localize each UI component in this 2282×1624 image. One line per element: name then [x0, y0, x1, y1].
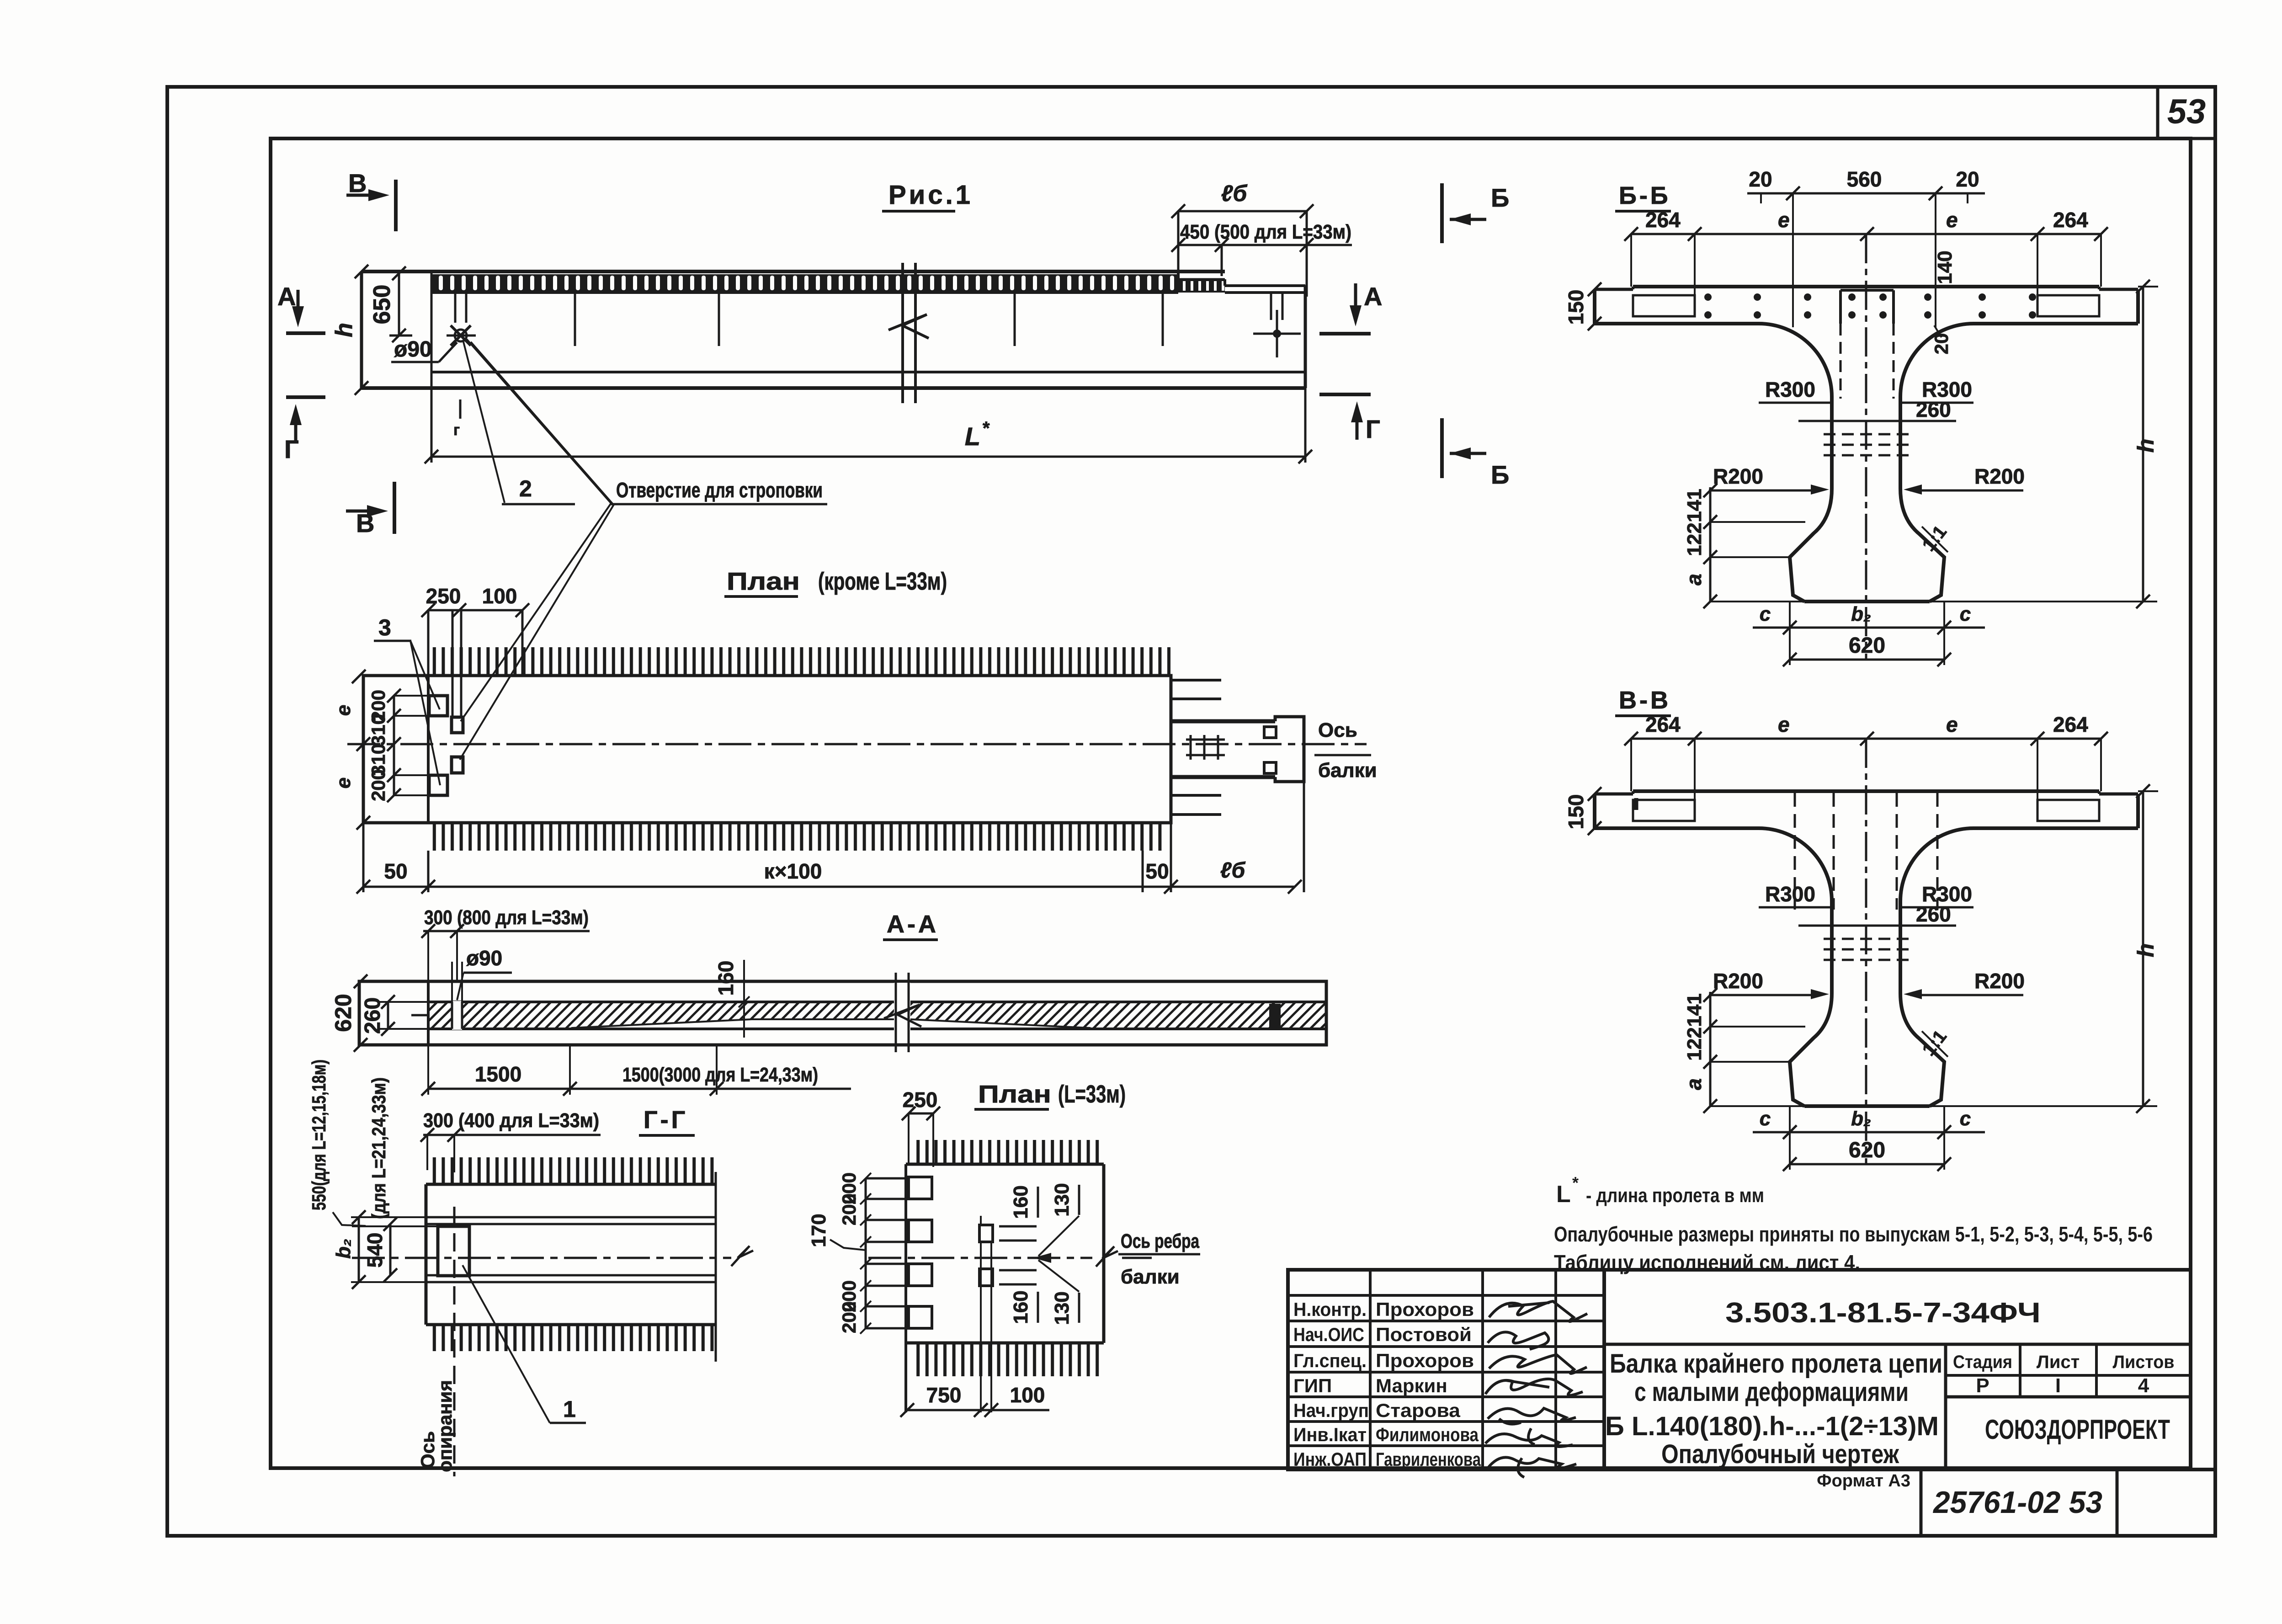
svg-text:4: 4 [2138, 1374, 2149, 1397]
svg-text:Прохоров: Прохоров [1376, 1350, 1474, 1371]
svg-text:Отверстие для строповки: Отверстие для строповки [616, 478, 823, 502]
svg-text:Формат А3: Формат А3 [1817, 1471, 1910, 1491]
svg-text:Р: Р [1976, 1374, 1989, 1397]
svg-text:b₂: b₂ [1851, 1108, 1871, 1130]
svg-text:53: 53 [2167, 92, 2206, 131]
svg-text:h: h [2133, 439, 2159, 453]
svg-text:560: 560 [1847, 167, 1882, 191]
svg-text:СОЮЗДОРПРОЕКТ: СОЮЗДОРПРОЕКТ [1985, 1414, 2170, 1445]
svg-text:20: 20 [1749, 167, 1772, 191]
svg-text:b₂: b₂ [1851, 603, 1871, 625]
svg-text:Н.контр.: Н.контр. [1293, 1299, 1367, 1320]
svg-text:Гавриленкова: Гавриленкова [1376, 1448, 1481, 1470]
svg-text:3: 3 [378, 615, 391, 640]
svg-text:Гл.спец.: Гл.спец. [1293, 1350, 1367, 1371]
svg-text:R200: R200 [1713, 464, 1763, 488]
svg-text:Опалубочный чертеж: Опалубочный чертеж [1661, 1439, 1899, 1469]
svg-text:50: 50 [384, 859, 407, 883]
svg-text:122: 122 [1683, 522, 1706, 556]
svg-text:е: е [332, 705, 355, 716]
svg-text:1: 1 [563, 1396, 576, 1422]
svg-text:L: L [965, 422, 980, 451]
svg-text:балки: балки [1121, 1266, 1180, 1288]
svg-text:R200: R200 [1974, 464, 2025, 488]
svg-text:260: 260 [1916, 902, 1951, 926]
svg-text:R200: R200 [1713, 969, 1763, 993]
svg-text:Нач.груп: Нач.груп [1293, 1400, 1369, 1421]
svg-text:160: 160 [1010, 1185, 1032, 1219]
svg-text:2: 2 [519, 476, 532, 501]
svg-text:(L=33м): (L=33м) [1058, 1081, 1126, 1108]
svg-text:Б-Б: Б-Б [1619, 182, 1671, 209]
svg-text:h: h [2133, 943, 2159, 958]
svg-text:160: 160 [1010, 1290, 1032, 1324]
svg-text:750: 750 [926, 1383, 962, 1407]
svg-text:Лист: Лист [2037, 1352, 2080, 1372]
svg-text:h: h [331, 323, 357, 337]
svg-text:450 (500 для L=33м): 450 (500 для L=33м) [1180, 221, 1351, 243]
svg-text:130: 130 [1051, 1183, 1073, 1216]
svg-text:ø90: ø90 [394, 337, 432, 362]
svg-text:200: 200 [838, 1301, 860, 1333]
svg-text:250: 250 [903, 1088, 938, 1112]
svg-text:План: План [978, 1081, 1051, 1108]
svg-text:250: 250 [426, 584, 461, 608]
svg-text:Б: Б [1491, 460, 1509, 489]
svg-text:Старова: Старова [1376, 1400, 1461, 1421]
svg-text:150: 150 [1564, 794, 1588, 830]
svg-text:ø90: ø90 [466, 946, 502, 970]
svg-text:е: е [1778, 208, 1790, 232]
svg-text:122: 122 [1683, 1027, 1706, 1060]
svg-text:c: c [1960, 1108, 1971, 1130]
svg-text:Филимонова: Филимонова [1376, 1424, 1479, 1445]
svg-text:с малыми деформациями: с малыми деформациями [1634, 1377, 1909, 1407]
svg-text:R300: R300 [1765, 378, 1815, 401]
svg-text:е: е [1946, 713, 1958, 736]
svg-text:310: 310 [367, 714, 389, 746]
svg-text:R200: R200 [1974, 969, 2025, 993]
svg-text:Б: Б [1491, 183, 1509, 212]
svg-text:В: В [348, 169, 367, 197]
svg-text:а: а [1682, 574, 1706, 586]
svg-text:Г-Г: Г-Г [644, 1106, 688, 1134]
svg-text:550(для L=12,15,18м): 550(для L=12,15,18м) [308, 1060, 330, 1210]
svg-text:Маркин: Маркин [1376, 1375, 1447, 1396]
svg-text:(кроме L=33м): (кроме L=33м) [818, 568, 947, 595]
svg-text:1500: 1500 [475, 1062, 521, 1086]
svg-text:264: 264 [1645, 713, 1681, 736]
svg-text:150: 150 [1564, 290, 1588, 325]
svg-text:(для L=21,24,33м): (для L=21,24,33м) [368, 1077, 389, 1219]
svg-text:балки: балки [1318, 759, 1377, 782]
svg-text:к×100: к×100 [764, 859, 822, 883]
svg-text:130: 130 [1051, 1291, 1073, 1325]
svg-text:100: 100 [1010, 1383, 1045, 1407]
svg-text:c: c [1760, 603, 1771, 625]
svg-text:е: е [1946, 208, 1958, 232]
svg-text:ℓб: ℓб [1221, 181, 1248, 206]
svg-text:А-А: А-А [887, 911, 939, 938]
svg-text:L: L [1556, 1181, 1571, 1208]
svg-text:b₂: b₂ [332, 1239, 355, 1259]
svg-text:*: * [1572, 1173, 1579, 1192]
svg-text:3.503.1-81.5-7-34ФЧ: 3.503.1-81.5-7-34ФЧ [1725, 1297, 2041, 1329]
svg-text:В-В: В-В [1619, 687, 1671, 714]
svg-text:Г: Г [1366, 415, 1380, 443]
svg-text:ГИП: ГИП [1293, 1375, 1332, 1396]
svg-text:- длина пролета в мм: - длина пролета в мм [1586, 1184, 1764, 1207]
svg-text:Таблицу исполнений см. лист 4.: Таблицу исполнений см. лист 4. [1554, 1251, 1860, 1274]
svg-text:Нач.ОИС: Нач.ОИС [1293, 1324, 1364, 1345]
svg-text:I: I [2055, 1374, 2061, 1397]
svg-text:25761-02 53: 25761-02 53 [1932, 1485, 2102, 1520]
svg-text:200: 200 [367, 769, 389, 801]
svg-text:Балка крайнего пролета цепи: Балка крайнего пролета цепи [1610, 1349, 1942, 1379]
svg-text:300 (400 для L=33м): 300 (400 для L=33м) [423, 1109, 599, 1132]
svg-text:Опалубочные размеры приняты по: Опалубочные размеры приняты по выпускам … [1554, 1222, 2153, 1246]
svg-text:Инж.ОАП: Инж.ОАП [1293, 1448, 1367, 1470]
svg-text:20: 20 [1956, 167, 1979, 191]
svg-text:264: 264 [1645, 208, 1681, 232]
svg-text:264: 264 [2053, 208, 2088, 232]
svg-text:Рис.1: Рис.1 [888, 180, 973, 210]
svg-text:Листов: Листов [2113, 1352, 2175, 1372]
svg-text:650: 650 [369, 285, 395, 325]
svg-text:Г: Г [284, 435, 299, 463]
svg-text:а: а [1682, 1078, 1706, 1090]
svg-text:Инв.Iкат: Инв.Iкат [1293, 1424, 1367, 1445]
svg-text:опирания: опирания [434, 1380, 456, 1472]
svg-text:160: 160 [714, 961, 738, 996]
svg-text:А: А [1364, 282, 1382, 311]
svg-text:300 (800 для L=33м): 300 (800 для L=33м) [424, 906, 589, 929]
svg-text:е: е [1778, 713, 1790, 736]
svg-text:Б L.140(180).h-...-1(2÷13)М: Б L.140(180).h-...-1(2÷13)М [1605, 1411, 1939, 1441]
svg-text:260: 260 [1916, 398, 1951, 421]
svg-text:140: 140 [1934, 250, 1956, 284]
svg-text:100: 100 [482, 584, 517, 608]
svg-text:Прохоров: Прохоров [1376, 1299, 1474, 1320]
svg-text:Постовой: Постовой [1376, 1324, 1472, 1345]
svg-text:c: c [1960, 603, 1971, 625]
svg-text:264: 264 [2053, 713, 2088, 736]
svg-text:200: 200 [838, 1193, 860, 1225]
svg-text:R300: R300 [1765, 882, 1815, 906]
svg-text:50: 50 [1145, 859, 1169, 883]
svg-text:План: План [727, 568, 800, 595]
svg-text:Ось ребра: Ось ребра [1121, 1230, 1199, 1252]
svg-text:г: г [453, 421, 460, 439]
svg-text:141: 141 [1683, 993, 1706, 1027]
svg-text:620: 620 [1849, 1138, 1885, 1162]
svg-text:620: 620 [1849, 634, 1885, 658]
svg-text:Ось: Ось [1318, 719, 1357, 741]
svg-text:*: * [983, 418, 990, 438]
svg-text:c: c [1760, 1108, 1771, 1130]
svg-text:141: 141 [1683, 489, 1706, 522]
svg-text:1500(3000 для L=24,33м): 1500(3000 для L=24,33м) [622, 1064, 818, 1086]
svg-text:е: е [332, 777, 355, 788]
svg-text:170: 170 [808, 1214, 830, 1247]
svg-text:540: 540 [363, 1233, 387, 1268]
svg-text:620: 620 [330, 994, 356, 1032]
svg-text:ℓб: ℓб [1220, 858, 1246, 883]
svg-text:Стадия: Стадия [1953, 1352, 2012, 1372]
